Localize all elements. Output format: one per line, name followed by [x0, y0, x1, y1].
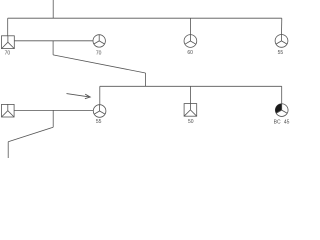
wire: vertical to bottom edge (off-screen child)	[7, 142, 9, 158]
person II-4: female circle, BC at 45, affected (left sector filled)	[275, 104, 288, 117]
wire: vertical down to generation-2 rail	[145, 73, 147, 86]
wire: generation-2 sibling rail	[100, 85, 282, 87]
wire: drop from rail to person I-3 circle	[189, 18, 191, 35]
wire: marriage line I-1 to I-2	[14, 40, 93, 42]
person I-2: female circle, age 70	[93, 35, 105, 47]
svg-text:BC: BC	[274, 120, 281, 126]
wire: marriage line II-1 to II-2	[14, 109, 93, 111]
person II-2: female circle, age 55 (proband)	[93, 105, 106, 118]
person I-4: female circle, age 55	[275, 35, 288, 48]
arrow: proband pointer to II-2	[67, 94, 91, 99]
person II-3: male square, age 50	[184, 104, 197, 117]
wire: drop from rail to person II-2 circle	[99, 86, 101, 105]
wire: child drop from generation-1 marriage line	[52, 41, 54, 55]
svg-text:55: 55	[278, 50, 284, 56]
wire: diagonal descent toward generation-3 (off-screen)	[8, 127, 53, 142]
svg-text:70: 70	[96, 50, 102, 56]
svg-text:70: 70	[5, 51, 11, 57]
person I-1: male square, age 70	[2, 36, 15, 49]
wire: drop from rail to person I-4 circle	[281, 18, 283, 34]
person II-1: male square (proband's partner)	[2, 104, 15, 117]
wire: drop from rail to person II-3 square	[189, 86, 191, 103]
wire: diagonal descent to generation-2 rail	[53, 55, 145, 73]
wire: drop from rail to person II-4 circle	[281, 86, 283, 104]
svg-text:45: 45	[284, 120, 290, 126]
svg-text:55: 55	[96, 119, 102, 125]
svg-text:50: 50	[188, 119, 194, 125]
person I-3: female circle, age 60	[184, 35, 197, 48]
wire: child drop from generation-2 marriage line	[52, 110, 54, 127]
wire: drop from rail to person I-1 square	[7, 18, 9, 36]
wire: generation-1 sibling rail	[8, 17, 282, 19]
svg-text:60: 60	[187, 50, 193, 56]
wire: descent stub from off-screen top to generation-1 sibling rail	[52, 0, 54, 18]
